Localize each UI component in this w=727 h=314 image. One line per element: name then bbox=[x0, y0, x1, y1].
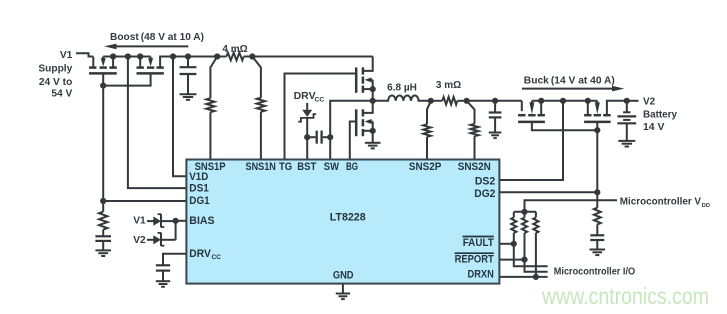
battery V2 symbol bbox=[626, 101, 628, 113]
wire FAULT to IO bus bbox=[514, 244, 548, 266]
transistor TG (top, boost/buck switch) bbox=[364, 57, 373, 71]
node V2 junction bbox=[624, 98, 630, 104]
node output cap junction bbox=[492, 98, 498, 104]
capacitor C2 buck bypass bbox=[494, 101, 496, 113]
wire V1 lead bbox=[76, 53, 93, 56]
wire rail 4mOhm to TG FET bbox=[252, 56, 372, 58]
wire M1-M2 gate tie to DG1 bbox=[103, 75, 150, 86]
wire rail M2 to 4 mOhm bbox=[173, 56, 217, 58]
resistor DG2 snubber bbox=[596, 192, 598, 207]
svg-text:CC: CC bbox=[212, 254, 222, 261]
svg-text:LT8228: LT8228 bbox=[330, 211, 366, 223]
wire rail 3mOhm to M3 bbox=[467, 100, 522, 102]
op-amp U1 LT8228 body bbox=[186, 160, 499, 284]
wire DG2 pin line bbox=[499, 191, 597, 193]
node BG source-body tie bbox=[370, 128, 376, 134]
capacitor DG1 snubber bbox=[102, 230, 104, 237]
svg-text:54 V: 54 V bbox=[51, 89, 72, 100]
wire DS2 pin line bbox=[499, 101, 563, 180]
svg-text:DRV: DRV bbox=[189, 248, 211, 260]
node BIAS junction bbox=[173, 218, 179, 224]
svg-text:CC: CC bbox=[315, 96, 325, 103]
svg-text:SNS2N: SNS2N bbox=[458, 161, 491, 173]
ground below BG FET bbox=[365, 142, 381, 144]
node DG1 junction bbox=[100, 198, 106, 204]
wire kelvin SNS1P bbox=[210, 57, 217, 99]
node sense1 right bbox=[249, 53, 255, 59]
wire M3-M4 gate tie bbox=[532, 123, 597, 130]
node M3 source junction bbox=[538, 98, 544, 104]
transistor M1 (input FET, left) bbox=[92, 57, 94, 67]
node sense1 left bbox=[214, 53, 220, 59]
wire REPORT to IO bus bbox=[525, 260, 548, 272]
node VDD pullup junction bbox=[521, 209, 527, 215]
svg-text:4 mΩ: 4 mΩ bbox=[222, 44, 247, 55]
resistor SNS2P filter bbox=[423, 124, 430, 136]
svg-text:GND: GND bbox=[333, 269, 354, 281]
node V1D rail junction bbox=[170, 53, 176, 59]
svg-text:V1: V1 bbox=[133, 215, 146, 226]
node input cap junction bbox=[185, 53, 191, 59]
wire mid rail between M1 and M2 bbox=[103, 56, 150, 58]
svg-text:DS1: DS1 bbox=[189, 183, 209, 195]
svg-text:DS2: DS2 bbox=[475, 176, 495, 188]
resistor R-pullup DRXN bbox=[535, 212, 537, 218]
node sense2 right bbox=[464, 98, 470, 104]
svg-text:SNS2P: SNS2P bbox=[409, 161, 441, 173]
node sense2 left bbox=[428, 98, 434, 104]
diode D1 bootstrap (schottky) bbox=[306, 103, 308, 110]
svg-text:DD: DD bbox=[702, 203, 710, 209]
wire DRXN pin line to IO bus bbox=[499, 276, 547, 278]
resistor R-sense2 3 mOhm bbox=[431, 100, 443, 102]
wire DG1 pin line bbox=[103, 200, 186, 202]
svg-text:V2: V2 bbox=[133, 235, 146, 246]
ground below C2 bbox=[489, 132, 502, 134]
capacitor C-BST bootstrap bbox=[307, 136, 315, 138]
ground below DG1 RC bbox=[95, 249, 111, 251]
wire DRVCC pin line bbox=[163, 254, 186, 266]
svg-text:REPORT: REPORT bbox=[455, 254, 494, 266]
wire SNS2P to pin bbox=[426, 137, 428, 160]
wire kelvin SNS2P bbox=[427, 101, 431, 125]
svg-text:FAULT: FAULT bbox=[463, 237, 494, 249]
wire V2 diode to BIAS bbox=[175, 221, 177, 240]
wire V1 rail to V1D pin bbox=[173, 57, 186, 177]
node FAULT junction bbox=[511, 241, 517, 247]
svg-text:Supply: Supply bbox=[38, 63, 72, 74]
ground below C-DRVCC bbox=[156, 280, 170, 282]
svg-text:Microcontroller V: Microcontroller V bbox=[620, 197, 702, 208]
wire TG pin to top FET gate bbox=[285, 74, 356, 160]
svg-text:DG1: DG1 bbox=[189, 195, 209, 207]
svg-text:SNS1N: SNS1N bbox=[246, 161, 276, 173]
wire SNS1P to pin bbox=[209, 112, 211, 159]
svg-text:Battery: Battery bbox=[643, 110, 677, 121]
inductor L1 6.8 uH bbox=[373, 95, 431, 100]
diode D2 V1 to BIAS bbox=[147, 220, 154, 222]
node M1 source junction bbox=[110, 53, 116, 59]
wire VDD line bbox=[525, 200, 618, 212]
wire GND stub bbox=[342, 284, 344, 294]
capacitor DG2 snubber bbox=[596, 224, 598, 235]
transistor M2 (input FET, right) bbox=[137, 66, 144, 69]
buck direction arrow bbox=[522, 88, 613, 90]
resistor SNS2N filter bbox=[471, 124, 479, 136]
svg-text:www.cntronics.com: www.cntronics.com bbox=[541, 283, 709, 309]
svg-text:Buck (14 V at 40 A): Buck (14 V at 40 A) bbox=[524, 74, 615, 86]
svg-text:BIAS: BIAS bbox=[189, 215, 214, 227]
resistor R-pullup REPORT bbox=[524, 212, 526, 218]
wire gates down to DG2 bbox=[596, 130, 598, 192]
node SW junction bbox=[370, 98, 376, 104]
ground below DG2 RC bbox=[590, 249, 606, 251]
svg-text:BST: BST bbox=[297, 161, 316, 173]
transistor BG (bottom, sync switch) bbox=[364, 101, 373, 113]
resistor R-sense1 4 mOhm bbox=[217, 56, 226, 58]
svg-text:Boost (48 V at 10 A): Boost (48 V at 10 A) bbox=[110, 31, 204, 43]
wire BIAS pin line bbox=[176, 220, 187, 222]
node gate tie junction right bbox=[594, 127, 600, 133]
boost direction arrow bbox=[116, 45, 188, 47]
wire gates down to DG1 pin bbox=[102, 86, 104, 201]
node DS2 rail junction bbox=[560, 98, 566, 104]
wire FAULT pin line bbox=[499, 243, 513, 245]
svg-text:V1D: V1D bbox=[189, 171, 208, 183]
wire V2 lead bbox=[627, 100, 639, 102]
svg-text:TG: TG bbox=[279, 161, 292, 173]
svg-text:Microcontroller I/O: Microcontroller I/O bbox=[554, 267, 635, 278]
node TG source-body tie bbox=[370, 86, 376, 92]
resistor SNS1N filter bbox=[257, 98, 265, 112]
wire kelvin SNS2N bbox=[467, 101, 475, 124]
wire common-source to DS1 pin bbox=[128, 57, 186, 189]
node gate tie junction bbox=[100, 83, 106, 89]
resistor SNS1P filter bbox=[206, 98, 214, 112]
wire REPORT pin line bbox=[499, 259, 524, 261]
wire SNS1N to pin bbox=[260, 112, 262, 160]
node DRXN junction bbox=[533, 274, 539, 280]
node DS1 rail junction bbox=[125, 53, 131, 59]
wire SNS2N to pin bbox=[474, 136, 476, 159]
svg-text:BG: BG bbox=[346, 161, 358, 173]
node M4 drain junction bbox=[585, 98, 591, 104]
ground below GND pin bbox=[336, 293, 350, 295]
svg-text:V1: V1 bbox=[60, 50, 73, 61]
transistor M3 (output FET, left) bbox=[521, 101, 523, 111]
svg-text:6.8 µH: 6.8 µH bbox=[387, 83, 417, 94]
svg-text:24 V to: 24 V to bbox=[39, 77, 72, 88]
svg-text:DG2: DG2 bbox=[474, 188, 495, 200]
ground below C1 bbox=[180, 93, 197, 95]
diode D3 V2 to BIAS bbox=[147, 239, 154, 241]
capacitor C1 input bypass bbox=[187, 57, 189, 68]
svg-text:SW: SW bbox=[324, 161, 340, 173]
resistor R-pullup FAULT bbox=[513, 212, 515, 218]
svg-text:V2: V2 bbox=[643, 96, 656, 107]
wire mid rail between M3 and M4 bbox=[532, 100, 597, 102]
resistor DG1 snubber bbox=[102, 201, 104, 212]
wire kelvin SNS1N bbox=[252, 57, 261, 98]
node REPORT junction bbox=[521, 257, 527, 263]
ground below battery bbox=[618, 140, 635, 142]
svg-text:14 V: 14 V bbox=[643, 122, 665, 133]
node BST-cap junction bbox=[304, 134, 310, 140]
svg-text:DRXN: DRXN bbox=[468, 269, 494, 281]
node SW-cap junction bbox=[327, 134, 333, 140]
wire BST vertical bbox=[306, 118, 308, 160]
svg-text:DRV: DRV bbox=[294, 90, 316, 102]
wire BG gate lead bbox=[350, 122, 356, 160]
node DG2 junction bbox=[594, 189, 600, 195]
wire SW pin vertical bbox=[330, 101, 373, 160]
wire pullup rail bbox=[514, 211, 536, 213]
node M2 drain junction bbox=[137, 53, 143, 59]
svg-text:3 mΩ: 3 mΩ bbox=[436, 80, 461, 91]
capacitor C-DRVCC bbox=[156, 264, 170, 266]
transistor M4 (output FET, right) bbox=[584, 114, 591, 117]
